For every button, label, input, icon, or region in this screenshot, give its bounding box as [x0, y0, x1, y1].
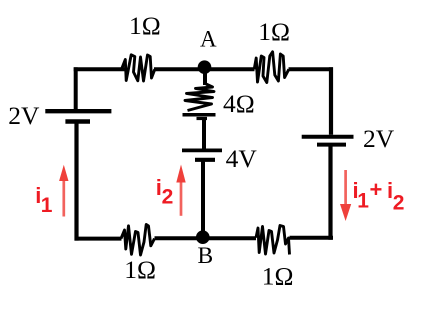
wire left lower (battery to corner) [74, 123, 78, 241]
battery V2 2V right: long plate [302, 135, 354, 139]
wire from 4ohm to 4V battery [202, 118, 206, 149]
battery V3 4V: long plate [182, 148, 222, 152]
battery V1 2V left: long plate [45, 109, 111, 113]
node A junction dot [198, 60, 212, 74]
svg-text:1Ω: 1Ω [258, 17, 290, 46]
svg-text:2V: 2V [8, 101, 40, 130]
wire top-right segment [289, 67, 334, 71]
battery V2 2V right: short plate [317, 143, 346, 147]
svg-text:+: + [370, 177, 383, 202]
resistor R3 1ohm bottom-left zigzag [121, 225, 155, 256]
current arrow i1 shaft [62, 180, 65, 217]
resistor R4 1ohm bottom-right zigzag [256, 226, 290, 255]
wire left upper (corner to battery) [74, 67, 78, 109]
resistor R5 wide end stroke [183, 113, 216, 117]
wire top-middle segment [154, 67, 255, 71]
wire right lower (battery to corner) [328, 147, 332, 240]
wire bottom-right segment [290, 236, 334, 240]
resistor R1 1ohm top-left zigzag [122, 55, 155, 81]
current arrow i1 head [59, 165, 68, 181]
battery V1 2V left: short plate [65, 119, 90, 123]
current arrow i1+i2 head [340, 204, 351, 221]
wire top-left segment [74, 67, 125, 71]
current arrow i2 head [176, 165, 185, 183]
svg-text:2: 2 [162, 186, 174, 209]
resistor R5 short end stroke [197, 117, 208, 120]
svg-text:4Ω: 4Ω [223, 89, 255, 118]
svg-text:1: 1 [41, 194, 53, 217]
wire bottom-middle segment [155, 236, 257, 240]
resistor R2 1ohm top-right zigzag [254, 52, 289, 83]
svg-text:2: 2 [393, 192, 405, 215]
svg-text:1Ω: 1Ω [262, 262, 294, 291]
wire bottom-left segment [75, 237, 122, 241]
svg-text:1: 1 [357, 190, 369, 213]
resistor R5 4ohm vertical scribble [185, 84, 214, 111]
svg-text:2V: 2V [363, 124, 395, 153]
svg-text:1Ω: 1Ω [129, 11, 161, 40]
wire from 4V battery down to node B [201, 160, 205, 237]
current arrow i2 shaft [180, 182, 183, 216]
node B junction dot [196, 230, 210, 244]
svg-text:A: A [200, 27, 217, 52]
battery V3 4V: short plate [195, 158, 215, 162]
svg-text:1Ω: 1Ω [124, 255, 156, 284]
wire from node A down to 4ohm resistor [203, 70, 207, 85]
svg-text:B: B [198, 243, 214, 269]
wire right upper (corner to battery) [329, 67, 333, 135]
svg-text:4V: 4V [226, 144, 258, 173]
current arrow i1+i2 shaft [344, 170, 347, 205]
